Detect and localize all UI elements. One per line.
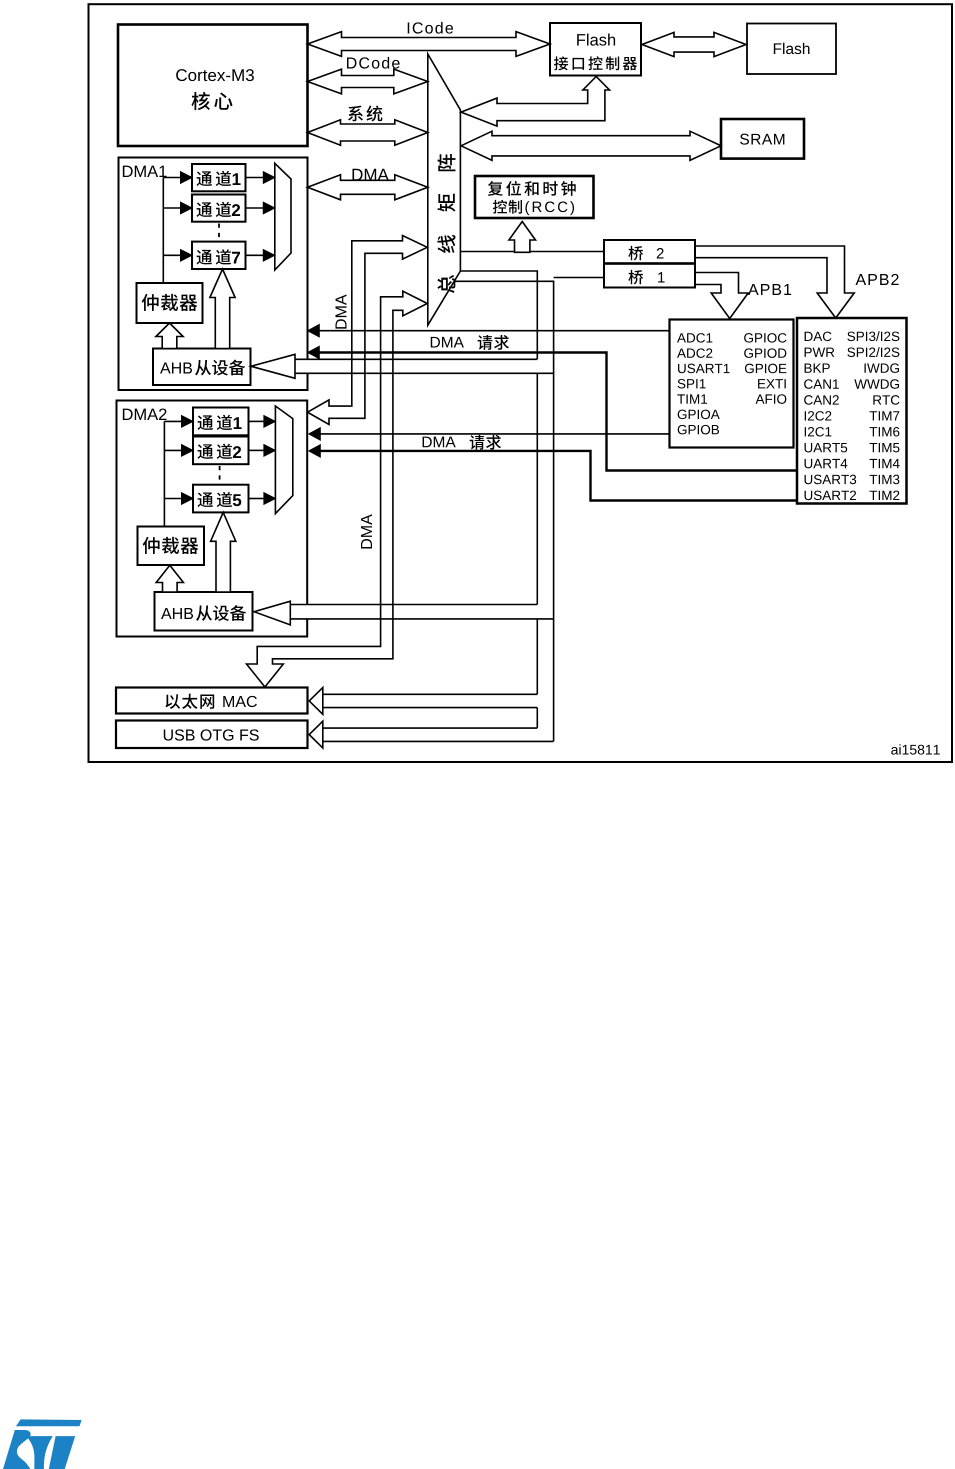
- DMA2 arrow AHB slave to arbiter: [156, 565, 183, 592]
- System bus double arrow: [308, 120, 428, 145]
- DMA1 arrow AHB slave to arbiter: [156, 323, 183, 349]
- DMA1 channel1 box: [192, 164, 246, 191]
- DMA2 bus rotated label: [335, 294, 346, 328]
- APB1 label: [748, 284, 759, 295]
- figure id label ai15811: [891, 747, 898, 755]
- DMA1 arbiter box: [137, 283, 203, 323]
- bridge 1 box: [604, 264, 695, 288]
- DMA2 arrow AHB slave to channel5: [211, 512, 236, 592]
- DMA1 label: [123, 166, 133, 177]
- APB2 arrow from bridge2: [695, 246, 854, 318]
- DMA2 AHB slave box: [155, 592, 253, 631]
- ST logo: [3, 1419, 82, 1469]
- arrow system channel into Ethernet MAC: [309, 688, 323, 715]
- USB OTG FS box: [116, 721, 308, 749]
- APB1 arrow from bridge1: [695, 273, 748, 319]
- DMA request line 3 to DMA2 (thin): [310, 433, 670, 435]
- DCode bus double arrow: [308, 69, 428, 94]
- SRAM box: [721, 119, 804, 159]
- DMA1 channel7 box: [192, 242, 246, 269]
- DMA request label 2: [423, 437, 432, 448]
- outer figure frame: [89, 4, 953, 762]
- DMA1 channel2 box: [192, 195, 246, 222]
- ETH bus: matrix arrow, vertical pair, down arrow into MAC: [247, 291, 428, 687]
- Ethernet MAC box: [116, 688, 308, 714]
- APB2 label: [856, 274, 867, 285]
- arrow system channel into DMA1 AHB slave: [251, 354, 295, 378]
- Flash memory box: [747, 24, 836, 75]
- DMA1 dashed ellipsis between channel2 and channel7: [218, 224, 220, 241]
- APB2 peripherals box: [797, 318, 907, 504]
- DMA2 channel2 box: [193, 437, 249, 465]
- DMA2 arbiter box: [138, 527, 205, 566]
- bus matrix trapezoid: [428, 54, 461, 325]
- DMA2 channel5 box: [193, 485, 249, 513]
- system bus channel: matrix to DMA1/DMA2 AHB, ETH MAC, USB (outline): [460, 271, 537, 359]
- DMA bus label: [353, 169, 363, 181]
- DMA request line 1 to DMA1 (thin): [309, 330, 670, 332]
- DMA1 box (right edge gapped for AHB slave arrow): [119, 158, 308, 391]
- DMA request label 1: [431, 337, 440, 348]
- arrow system channel into USB OTG FS: [309, 721, 323, 748]
- DCode label: [347, 57, 356, 68]
- bus matrix vertical label: [437, 154, 455, 171]
- ETH bus rotated label: [361, 514, 372, 548]
- DMA request line 4 to DMA2 (thick, from APB1 peripherals): [310, 451, 797, 501]
- Cortex-M3 core box: [118, 25, 308, 147]
- DMA2 box (right edge gapped for AHB slave arrow): [117, 401, 308, 637]
- DMA2 channel feed line: [163, 421, 165, 526]
- DMA1 channel to funnel arrows: [246, 177, 264, 179]
- arrow system channel into DMA2 AHB slave: [254, 601, 290, 625]
- DMA request line 2 to DMA1 (thick, from APB1 peripherals): [309, 353, 797, 471]
- ICode label: [408, 22, 409, 33]
- DMA2 dashed ellipsis: [219, 466, 221, 484]
- L-arrow bus matrix to Flash interface: [461, 77, 610, 127]
- DMA1 channel feed line: [162, 178, 164, 284]
- DMA1 AHB slave box: [153, 349, 251, 386]
- Flash interface controller box: [550, 23, 641, 76]
- bridge 2 box: [604, 240, 695, 263]
- SRAM double arrow: [461, 131, 721, 160]
- bus matrix to bridge2 line (with gap for RCC arrow): [460, 251, 514, 253]
- DMA1 arrow AHB slave to channel7: [210, 269, 235, 349]
- Flash interface to Flash double arrow: [642, 32, 746, 56]
- DMA2 channel to funnel arrows: [249, 420, 264, 422]
- System bus label: [348, 106, 363, 122]
- DMA2 bus: matrix arrow, vertical pair, arrow into DMA2: [308, 236, 428, 425]
- RCC up arrow from bus line: [509, 222, 536, 253]
- reset and clock control (RCC) box: [475, 176, 594, 218]
- DMA2 label: [123, 409, 133, 420]
- ICode bus double arrow: [308, 32, 551, 57]
- DMA2 channel1 box: [193, 408, 249, 436]
- bridge1 stub line from system channel: [554, 277, 604, 279]
- DMA1 output funnel: [275, 163, 291, 270]
- DMA bus double arrow (DMA1 to bus matrix): [308, 175, 428, 200]
- APB1 peripherals box: [670, 320, 794, 448]
- DMA2 output funnel: [275, 406, 292, 514]
